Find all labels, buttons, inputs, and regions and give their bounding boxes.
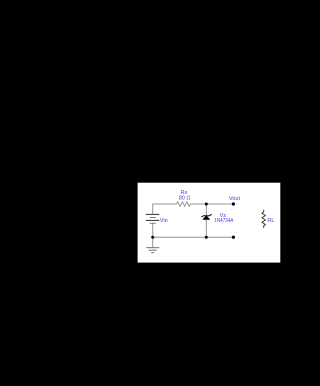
svg-text:Vout: Vout bbox=[229, 196, 240, 202]
svg-text:RL: RL bbox=[267, 218, 274, 224]
svg-text:80 Ω: 80 Ω bbox=[179, 195, 191, 201]
svg-text:Vin: Vin bbox=[160, 218, 168, 224]
svg-text:1N4734A: 1N4734A bbox=[214, 218, 233, 224]
